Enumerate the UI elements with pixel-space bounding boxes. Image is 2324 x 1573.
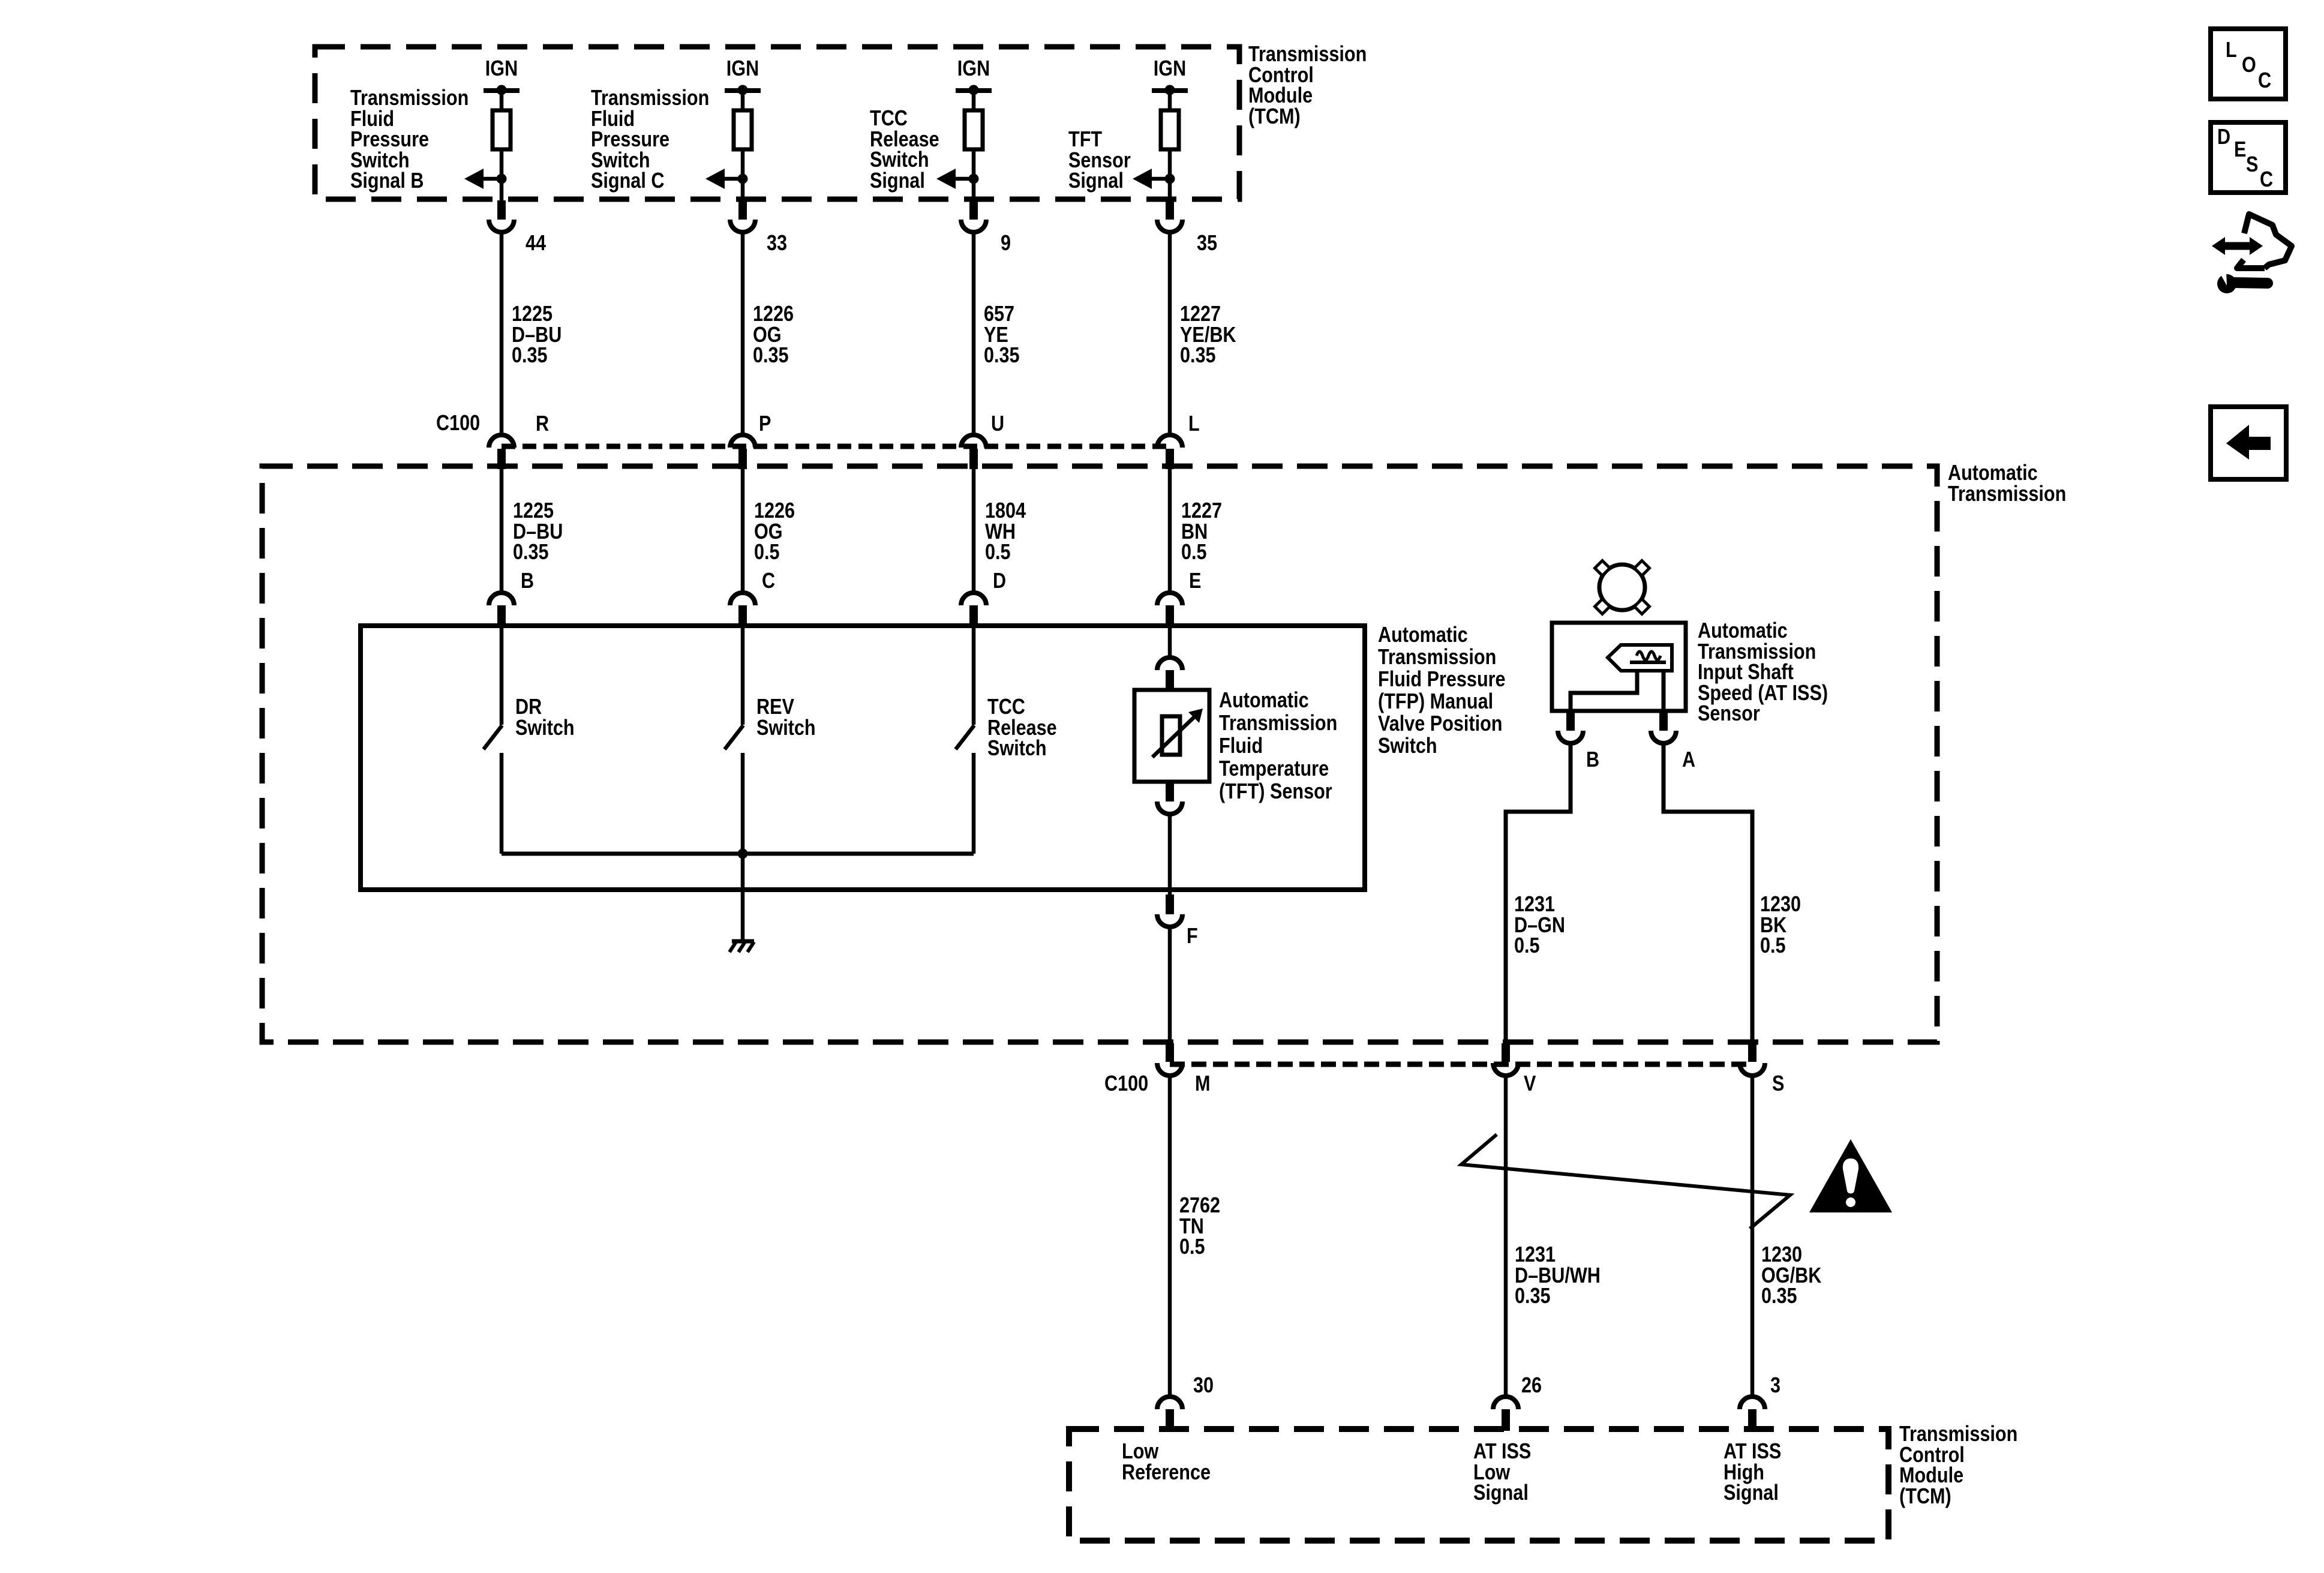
label low reference <box>1122 1441 1226 1482</box>
back arrow <box>2226 425 2249 460</box>
twisted pair callout line <box>1461 1134 1790 1229</box>
C100 M terminal stub <box>1166 1043 1174 1062</box>
label TCC release switch <box>987 697 1069 759</box>
pin B terminal stub <box>1566 711 1575 731</box>
label TFP switch signal B <box>350 88 490 191</box>
C100 S connector arc <box>1740 1063 1765 1076</box>
resistor (TCM pull-up) col3 <box>965 110 983 149</box>
pin 26 terminal stub <box>1502 1409 1510 1431</box>
signal arrow col1 <box>464 169 484 189</box>
wire IGN to resistor col3 <box>972 91 976 110</box>
warning triangle <box>1809 1139 1892 1212</box>
connector arc pin B <box>489 593 514 605</box>
module box: Automatic Transmission <box>262 466 1937 1042</box>
wire C100 V to TCM pin 26 <box>1504 1076 1508 1398</box>
junction dot at REV switch <box>738 849 748 859</box>
pin 3 terminal stub <box>1748 1409 1756 1431</box>
wire label 1225/D–BU/0.35 <box>513 500 572 563</box>
label C100 bottom <box>1104 1073 1156 1094</box>
wire label 1226/OG/0.5 <box>754 500 802 563</box>
label REV switch <box>756 697 826 738</box>
IGN feed bar col4 <box>1152 88 1188 93</box>
label Automatic Transmission <box>1948 463 2087 504</box>
ground symbol <box>732 939 754 944</box>
label IGN col3 <box>884 58 1064 79</box>
TFT sensor terminal stub (bottom) <box>1166 782 1174 801</box>
label AT ISS low signal <box>1473 1441 1541 1503</box>
TFT sensor terminal stub (top) <box>1166 670 1174 690</box>
wire label 1230 OG/BK 0.35 <box>1761 1244 1832 1307</box>
resistor (TCM pull-up) col2 <box>734 110 752 149</box>
pin letter R <box>536 413 551 434</box>
connector half-circle pin 9 <box>961 220 986 232</box>
label TCM bottom <box>1899 1424 2038 1506</box>
TFT sensor box <box>1134 690 1209 782</box>
switch assembly box (TFP manual valve position switch) <box>361 626 1365 890</box>
label DR switch <box>515 697 585 738</box>
C100 V connector arc <box>1493 1063 1518 1076</box>
terminal stub pin B <box>497 605 506 626</box>
hotlink icon outline <box>2244 214 2292 268</box>
connector C100 arc pin L <box>1157 435 1182 448</box>
wire pin 33 to C100 <box>741 232 745 435</box>
pin letter E <box>1189 571 1203 592</box>
pin number 9 <box>1001 233 1013 254</box>
DESC icon letter D <box>2217 127 2233 148</box>
wire pin A to C100 S <box>1664 743 1752 1045</box>
switch common junction line <box>502 852 974 856</box>
junction dot col4 <box>1165 174 1175 184</box>
switch blade col3 <box>956 725 974 749</box>
pin number 30 <box>1193 1375 1217 1396</box>
LOC icon letter L <box>2226 40 2239 61</box>
label IGN col4 <box>1080 58 1260 79</box>
switch blade col1 <box>484 725 502 749</box>
thermistor arrow <box>1152 716 1196 757</box>
resistor (TCM pull-up) col1 <box>493 110 511 149</box>
TCM pin terminal stub col4 <box>1166 200 1174 220</box>
TCM pin terminal stub col2 <box>738 200 747 220</box>
pin letter S <box>1772 1073 1786 1094</box>
IGN node dot col1 <box>497 85 507 95</box>
module box: Transmission Control Module (TCM) bottom <box>1069 1429 1888 1541</box>
AT ISS sensor box <box>1552 623 1686 711</box>
DESC icon letter C <box>2260 169 2275 190</box>
label TFT sensor <box>1219 689 1358 803</box>
label TFT sensor signal <box>1068 129 1142 191</box>
TCM pin terminal stub col1 <box>497 200 506 220</box>
IGN feed bar col2 <box>725 88 761 93</box>
wire to TFT sensor <box>1168 626 1172 659</box>
wire label 1231 D-BU/WH 0.35 <box>1515 1244 1616 1307</box>
sensor lead A <box>1662 671 1666 711</box>
hotlink icon wrench <box>2217 274 2236 293</box>
DESC icon box <box>2211 122 2286 193</box>
IGN node dot col4 <box>1165 85 1175 95</box>
label TCM top <box>1248 44 1388 127</box>
pin number 35 <box>1197 233 1221 254</box>
thermistor body <box>1162 716 1180 755</box>
wire label 657/YE/0.35 <box>984 304 1026 366</box>
pin B connector arc <box>1558 731 1583 743</box>
wire label 2762 TN 0.5 <box>1179 1195 1227 1257</box>
connector C100 arc pin P <box>730 435 755 448</box>
speed sensor pickup symbol <box>1608 645 1672 671</box>
label TFP valve position switch <box>1378 623 1528 757</box>
LOC icon box <box>2211 29 2286 99</box>
TFT sensor connector arc (top) <box>1157 658 1182 670</box>
signal arrow col3 <box>936 169 956 189</box>
label TCC release switch signal <box>870 108 951 191</box>
wire pin 9 to C100 <box>972 232 976 435</box>
connector half-circle pin 33 <box>730 220 755 232</box>
wire into switch col2 <box>741 626 745 725</box>
junction dot col2 <box>738 174 748 184</box>
wire pin 44 to C100 <box>500 232 504 435</box>
pin letter B (ISS) <box>1586 749 1602 770</box>
LOC icon letter O <box>2242 55 2259 76</box>
pin letter D <box>993 571 1008 592</box>
C100 V terminal stub <box>1502 1043 1510 1062</box>
wire C100 S to TCM pin 3 <box>1750 1076 1755 1398</box>
IGN node dot col2 <box>738 85 748 95</box>
wire label 1230 BK 0.5 <box>1760 894 1808 956</box>
wire IGN to resistor col4 <box>1168 91 1172 110</box>
connector C100 arc pin U <box>961 435 986 448</box>
C100 terminal stub pin P <box>738 449 747 469</box>
IGN node dot col3 <box>969 85 979 95</box>
wire resistor to TCM pin col4 <box>1168 149 1172 202</box>
label pin F <box>1187 926 1200 947</box>
hotlink icon double arrow <box>2223 242 2251 250</box>
wire pin B to C100 V <box>1506 743 1571 1045</box>
wire label 1804/WH/0.5 <box>985 500 1033 563</box>
wire IGN to resistor col2 <box>741 91 745 110</box>
signal arrow col2 <box>705 169 725 189</box>
wire into switch col3 <box>972 626 976 725</box>
pin 30 terminal stub <box>1166 1409 1174 1431</box>
C100 S terminal stub <box>1748 1043 1756 1062</box>
pin letter U <box>991 413 1007 434</box>
pin number 26 <box>1521 1375 1545 1396</box>
wire label 1227/YE/BK/0.35 <box>1180 304 1246 366</box>
wire resistor to TCM pin col3 <box>972 149 976 202</box>
connector arc pin E <box>1157 593 1182 605</box>
label C100 top <box>436 413 488 434</box>
wire pin 35 to C100 <box>1168 232 1172 435</box>
module box: Transmission Control Module (TCM) top <box>315 47 1239 199</box>
wire C100 to transmission col3 <box>972 469 976 594</box>
wire pin F to C100 M <box>1168 927 1172 1044</box>
AT ISS sensor rotor icon <box>1599 565 1645 610</box>
pin letter M <box>1195 1073 1213 1094</box>
pin number 33 <box>767 233 791 254</box>
sensor lead B <box>1571 671 1637 711</box>
pin A connector arc <box>1651 731 1676 743</box>
pin 30 connector arc <box>1157 1397 1182 1409</box>
DESC icon letter E <box>2234 139 2248 160</box>
pin letter B <box>521 571 536 592</box>
label AT ISS sensor <box>1698 620 1851 724</box>
terminal stub pin D <box>969 605 978 626</box>
terminal stub pin E <box>1166 605 1174 626</box>
connector C100 dashed line (top) <box>502 444 1170 449</box>
pin letter P <box>759 413 773 434</box>
wire label 1225/D–BU/0.35 <box>512 304 571 366</box>
connector arc pin C <box>730 593 755 605</box>
REV switch wire to ground <box>741 854 745 940</box>
C100 terminal stub pin L <box>1166 449 1174 469</box>
wire below switch col2 <box>741 753 745 854</box>
wire resistor to TCM pin col1 <box>500 149 504 202</box>
pin letter C <box>762 571 777 592</box>
wire IGN to resistor col1 <box>500 91 504 110</box>
switch blade col2 <box>725 725 743 749</box>
pin F terminal stub <box>1166 894 1174 914</box>
pin F connector arc <box>1157 914 1182 927</box>
pin A terminal stub <box>1659 711 1668 731</box>
pin 3 connector arc <box>1740 1397 1765 1409</box>
back arrow icon box <box>2211 407 2286 479</box>
wire into switch col1 <box>500 626 504 725</box>
wire TFT to pin F <box>1168 814 1172 896</box>
wire below switch col3 <box>972 753 976 854</box>
pin 26 connector arc <box>1493 1397 1518 1409</box>
signal arrow col4 <box>1133 169 1152 189</box>
connector C100 dashed line (bottom) <box>1170 1062 1752 1067</box>
pin letter V <box>1524 1073 1538 1094</box>
DESC icon letter S <box>2246 154 2260 175</box>
connector half-circle pin 35 <box>1157 220 1182 232</box>
TCM pin terminal stub col3 <box>969 200 978 220</box>
terminal stub pin C <box>738 605 747 626</box>
pin number 44 <box>526 233 550 254</box>
connector half-circle pin 44 <box>489 220 514 232</box>
label AT ISS high signal <box>1724 1441 1791 1503</box>
wire C100 to transmission col1 <box>500 469 504 594</box>
wire C100 M to TCM pin 30 <box>1168 1076 1172 1398</box>
junction dot col3 <box>969 174 979 184</box>
C100 terminal stub pin R <box>497 449 506 469</box>
pin number 3 <box>1770 1375 1782 1396</box>
label IGN col1 <box>412 58 591 79</box>
wire label 1226/OG/0.35 <box>753 304 801 366</box>
LOC icon letter C <box>2258 70 2274 91</box>
C100 terminal stub pin U <box>969 449 978 469</box>
pin letter A (ISS) <box>1682 749 1698 770</box>
label IGN col2 <box>653 58 833 79</box>
connector arc pin D <box>961 593 986 605</box>
resistor (TCM pull-up) col4 <box>1161 110 1179 149</box>
pin letter L <box>1188 413 1202 434</box>
IGN feed bar col3 <box>956 88 992 93</box>
connector C100 arc pin R <box>489 435 514 448</box>
wire resistor to TCM pin col2 <box>741 149 745 202</box>
wire C100 to transmission col2 <box>741 469 745 594</box>
wire label 1227/BN/0.5 <box>1181 500 1229 563</box>
wire label 1231 D-GN 0.5 <box>1514 894 1574 956</box>
IGN feed bar col1 <box>484 88 520 93</box>
junction dot col1 <box>497 174 507 184</box>
TFT sensor connector arc (bottom) <box>1157 801 1182 814</box>
wire below switch col1 <box>500 753 504 854</box>
C100 M connector arc <box>1157 1063 1182 1076</box>
label TFP switch signal C <box>591 88 730 191</box>
wire C100 to transmission col4 <box>1168 469 1172 594</box>
